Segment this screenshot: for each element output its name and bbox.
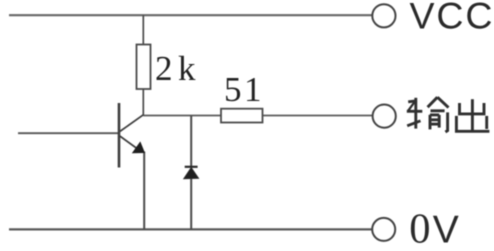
transistor collector lead [120, 115, 144, 132]
resistor R1 2k [137, 45, 151, 90]
diode D1 [184, 167, 199, 179]
wire top rail [9, 14, 373, 16]
resistor R2 51 [221, 109, 263, 123]
terminal output [373, 105, 396, 128]
输 char [408, 101, 417, 102]
terminal VCC [372, 4, 395, 27]
transistor Q1 [119, 103, 145, 168]
transistor base bar [118, 103, 121, 168]
svg-text:2k: 2k [155, 49, 201, 88]
wire bottom rail [9, 228, 372, 230]
label 输出 (drawn strokes) [407, 97, 490, 132]
terminal 0V [372, 218, 395, 241]
wire 2k top [142, 15, 144, 44]
wire base lead [18, 132, 119, 134]
出 char [471, 99, 474, 131]
diode anode triangle [184, 168, 199, 179]
transistor emitter arrow [132, 141, 145, 153]
wire diode bottom [190, 179, 192, 230]
svg-text:VCC: VCC [410, 0, 494, 37]
svg-text:0V: 0V [409, 206, 458, 251]
diode cathode bar [185, 166, 198, 168]
wire 2k bottom [142, 89, 144, 116]
svg-text:51: 51 [224, 70, 264, 109]
wire emitter vertical [143, 152, 145, 230]
transistor emitter lead [120, 136, 137, 149]
wire diode top [190, 116, 192, 167]
wire output rail [143, 115, 372, 117]
